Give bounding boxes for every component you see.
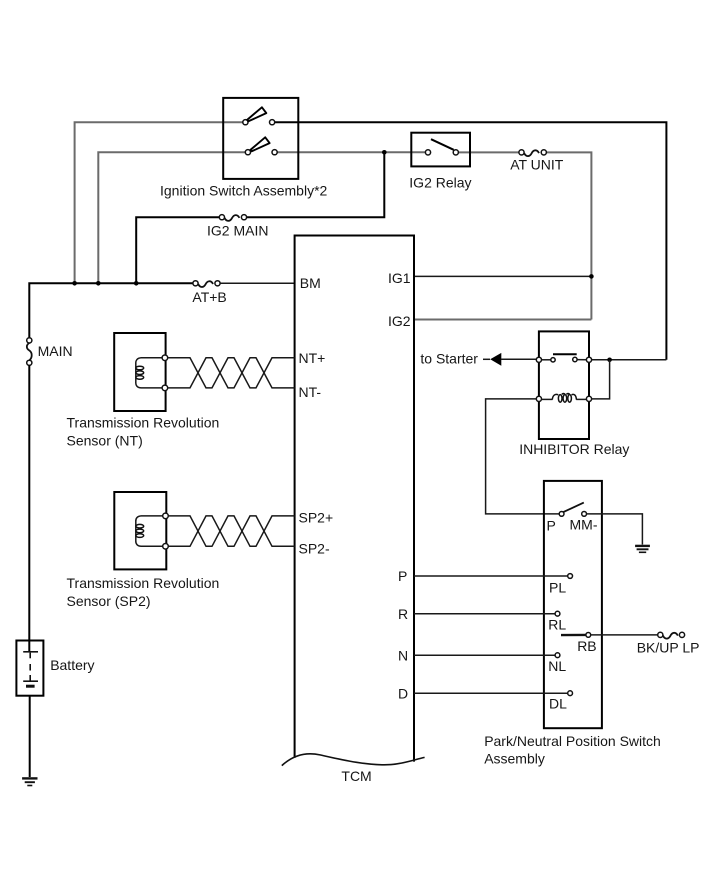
contact RB with lever and wire to BK/UP LP [561,633,597,655]
wire MM- to ground [587,514,643,545]
wire R pin to RL contact [414,613,555,615]
contact DL [549,691,572,712]
TCM box with wavy bottom [282,236,425,785]
wire IG2 relay output to AT UNIT fuse [458,151,519,153]
twisted pair NT+ / NT- [168,358,295,388]
to Starter arrow and wire [420,350,536,366]
TCM pin label IG1 [388,270,411,286]
wire P pin to PL contact [414,575,568,577]
svg-text:N: N [398,647,408,663]
park/neutral switch P / MM- contact with lever [547,503,598,534]
svg-text:DL: DL [549,696,567,712]
wire AT UNIT fuse to vertical feeding IG1/IG2 pins [546,152,591,319]
wire IG2 MAIN branch from ignition switch 2 output down and left to bus [247,152,385,217]
node junction dot on ignition switch 2 output [382,150,387,155]
svg-text:AT UNIT: AT UNIT [510,156,564,172]
svg-text:R: R [398,606,408,622]
svg-text:Transmission Revolution: Transmission Revolution [67,415,220,431]
IG2 relay contacts and lever [425,139,458,155]
node junction dot bus x98 [96,281,101,286]
transmission revolution sensor SP2 box [67,492,220,609]
TCM pin label NT- [299,384,322,400]
svg-text:D: D [398,685,408,701]
INHIBITOR relay box [519,331,629,457]
svg-text:TCM: TCM [341,768,371,784]
wire inhibitor coil right to junction [592,360,610,399]
contact PL [549,574,572,596]
battery [16,641,94,696]
svg-text:to Starter: to Starter [420,350,478,366]
wire N pin to NL contact [414,654,555,656]
svg-text:P: P [547,517,556,533]
TCM pin label IG2 [388,313,411,329]
wire battery negative to ground [29,696,31,777]
svg-text:NT+: NT+ [299,350,326,366]
svg-text:Sensor (SP2): Sensor (SP2) [67,593,151,609]
svg-text:SP2-: SP2- [299,540,330,556]
svg-text:BM: BM [300,275,321,291]
park/neutral position switch box [484,481,661,767]
ignition switch 1 contacts and key wedge [243,107,275,124]
svg-text:INHIBITOR Relay: INHIBITOR Relay [519,441,629,457]
svg-text:SP2+: SP2+ [299,509,334,525]
wire ignition switch 2 output to IG2 relay [277,151,425,153]
svg-text:RL: RL [548,617,566,633]
wire D pin to DL contact [414,692,568,694]
TCM pin label SP2- [299,540,330,556]
SP2 sensor coil [136,513,169,549]
contact RL [548,611,566,632]
svg-text:Battery: Battery [50,657,94,673]
wire ignition switch 1 input with vertical to main bus [75,122,243,283]
fuse AT+B [192,281,226,305]
svg-text:BK/UP LP: BK/UP LP [637,640,700,656]
wire IG1 pin of TCM to junction [414,275,591,277]
wire RB to back-up lamp fuse [591,634,658,636]
svg-text:AT+B: AT+B [192,289,226,305]
TCM pin label BM [300,275,321,291]
svg-text:Sensor (NT): Sensor (NT) [67,432,143,448]
wire IG2 MAIN left segment to bus [136,217,219,283]
wire IG2 pin of TCM [414,319,591,321]
wire main bus from battery corner to AT+B fuse [29,283,193,338]
twisted pair SP2+ / SP2- [168,516,294,546]
wire BM pin from AT+B fuse to TCM [220,282,295,284]
wire IG1 feed from ignition switch 1 output along top to right vertical [275,122,667,360]
svg-text:IG1: IG1 [388,270,411,286]
svg-text:IG2 Relay: IG2 Relay [409,174,471,190]
fuse AT UNIT [510,150,564,173]
wire ignition switch 2 input with vertical to main bus [98,152,245,283]
ignition switch 2 contacts and key wedge [245,137,277,154]
svg-text:MAIN: MAIN [38,343,73,359]
svg-text:Ignition Switch Assembly*2: Ignition Switch Assembly*2 [160,183,328,199]
svg-text:Transmission Revolution: Transmission Revolution [67,575,220,591]
svg-text:IG2: IG2 [388,313,411,329]
svg-text:Assembly: Assembly [484,751,545,767]
node junction dot inhibitor coil feed [607,358,612,363]
svg-text:Park/Neutral Position Switch: Park/Neutral Position Switch [484,733,661,749]
wire inhibitor coil left down to park/neutral switch P contact [486,399,559,514]
fuse IG2 MAIN [207,215,268,239]
IG2 relay box [409,133,471,191]
INHIBITOR relay contact row [536,354,591,362]
INHIBITOR relay coil [536,394,591,403]
svg-text:MM-: MM- [570,517,598,533]
TCM pin label N [398,647,408,663]
node junction dot IG1 [589,274,594,279]
NT sensor coil [136,355,168,391]
transmission revolution sensor NT box [67,333,220,448]
svg-text:NL: NL [548,658,566,674]
TCM pin label P [398,568,407,584]
TCM pin label NT+ [299,350,326,366]
wire from right vertical to inhibitor relay contact [587,359,667,361]
ground below battery [22,778,37,785]
wire battery feed vertical [28,365,30,651]
fusible link MAIN [27,338,73,366]
svg-text:RB: RB [577,638,596,654]
ignition switch assembly box [160,98,328,199]
TCM pin label R [398,606,408,622]
ground at MM- [635,546,650,552]
TCM pin label D [398,685,408,701]
svg-text:NT-: NT- [299,384,322,400]
svg-text:IG2 MAIN: IG2 MAIN [207,222,268,238]
node junction dot bus x74 [72,281,77,286]
svg-text:PL: PL [549,580,566,596]
node junction dot bus x136 [134,281,139,286]
TCM pin label SP2+ [299,509,334,525]
contact NL [548,653,566,674]
fuse BK/UP LP [637,632,700,655]
svg-text:P: P [398,568,407,584]
